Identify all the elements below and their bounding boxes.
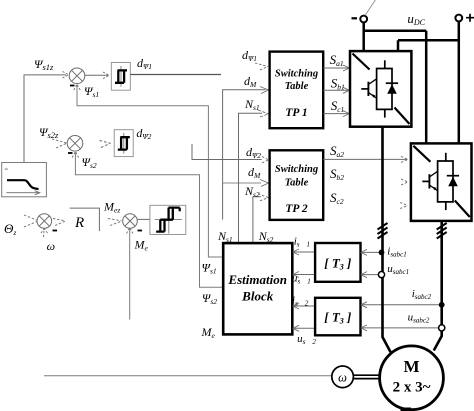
svg-text:Block: Block (241, 289, 274, 304)
wire speed feedback bottom (44, 375, 332, 377)
node u_sabc2 tap (open circle) (439, 325, 445, 331)
wire S_c1 (323, 113, 349, 115)
arrow S_b2 into inverter 2 (401, 179, 408, 185)
wire u_s1 into estimation block (293, 274, 315, 276)
wire torque feedback (129, 228, 131, 320)
svg-text:Switching: Switching (275, 69, 318, 80)
three-phase marks line 1 (378, 223, 388, 239)
svg-text:Switching: Switching (275, 164, 318, 175)
svg-text:R: R (74, 215, 84, 231)
wire flux reference riser (24, 75, 66, 163)
wire torque error to hysteresis (137, 218, 150, 220)
wire i_s2 into estimation block (293, 305, 315, 307)
wire d_M branch to table 2 (223, 182, 261, 184)
wire i_s1 into estimation block (293, 251, 315, 253)
node i_sabc2 tap (439, 302, 445, 308)
svg-text:[ T3 ]: [ T3 ] (324, 256, 351, 272)
wire motor phase line 2 (434, 221, 442, 351)
wire summing junction 1 to flux hysteresis 1 (85, 74, 109, 76)
wire DC bus minus (363, 22, 427, 143)
flux reference block (ramp) (2, 163, 47, 197)
torque hysteresis comparator (3-level) (150, 205, 186, 234)
wire DC bus plus (398, 21, 460, 143)
node i_sabc1 tap (379, 250, 385, 256)
arrow N_s2 into table 2 (258, 194, 269, 201)
arrow d_M into table 1 (260, 87, 269, 94)
wire d_psi2 to switching table 2 (192, 144, 262, 160)
wire N_s1 riser (239, 113, 263, 243)
speed controller R (70, 208, 100, 231)
shaft (354, 374, 380, 376)
arrow summing junction 2 to flux hysteresis 2 (100, 141, 111, 148)
switching table 2 (270, 150, 324, 220)
wire S_a1 (323, 67, 349, 69)
transformation block T3 no.1 (315, 243, 360, 282)
wire d_M riser (223, 90, 266, 220)
motor (380, 346, 444, 411)
svg-text:Table: Table (285, 178, 309, 189)
arrow S_c2 into inverter 2 (400, 203, 408, 209)
wire flux feedback 1 (77, 85, 223, 257)
summing junction 3 (speed) (37, 214, 57, 231)
wire N_s2 riser (253, 197, 261, 243)
three-phase marks line 2 (437, 223, 447, 239)
speed sensor (332, 366, 354, 388)
arrow N_s1 into table 1 (258, 110, 269, 117)
DC terminal plus (455, 15, 462, 22)
svg-text:Table: Table (285, 81, 309, 92)
wire u_sabc1 tap to T3 no.1 (361, 274, 382, 276)
arrow d_psi1 into table 1 (255, 63, 268, 70)
node u_sabc1 tap (open circle) (378, 272, 384, 278)
svg-text:2 x 3~: 2 x 3~ (393, 380, 431, 396)
summing junction 1 (69, 68, 85, 86)
wire d_psi1 to switching table 1 (130, 74, 221, 76)
arrow omega feedback into summing junction 3 (41, 229, 48, 237)
summing junction 4 (torque) (123, 214, 142, 231)
node arrow into summing junction 1 (63, 72, 69, 79)
wire i_sabc2 tap to T3 no.2 (361, 304, 442, 306)
svg-text:TP 1: TP 1 (285, 107, 307, 119)
svg-text:TP 2: TP 2 (285, 203, 307, 215)
transformation block T3 no.2 (315, 298, 360, 336)
wire motor phase line 1 (383, 127, 391, 352)
svg-text:Estimation: Estimation (227, 272, 287, 287)
svg-text:ω: ω (47, 239, 55, 253)
wire flux feedback 2 (75, 152, 223, 287)
wire S_a2 (323, 158, 407, 160)
arrow d_psi2 into table 2 (262, 157, 269, 164)
inverter 2 (411, 143, 472, 221)
wire S_b1 (323, 89, 349, 91)
arrow d_M into table 2 (260, 180, 269, 187)
wire u_s2 into estimation block (293, 327, 315, 329)
DC terminal minus (352, 17, 358, 19)
stray lead line (365, 0, 375, 16)
flux hysteresis comparator 1 (111, 63, 130, 91)
svg-text:M: M (403, 357, 419, 376)
summing junction 2 (67, 136, 83, 154)
arrow speed ref into summing junction 3 (24, 215, 37, 227)
switching table 1 (270, 52, 324, 129)
svg-text:ω: ω (338, 371, 347, 385)
estimation block (223, 243, 292, 334)
svg-text:[ T3 ]: [ T3 ] (324, 310, 351, 326)
flux hysteresis comparator 2 (114, 130, 133, 157)
arrow flux ref 2 into summing junction 2 (52, 139, 67, 148)
arrow R to summing junction 4 (108, 219, 122, 226)
wire i_sabc1 tap to T3 no.1 (361, 251, 382, 253)
arrow summing junction 3 to speed controller R (53, 219, 65, 226)
inverter 1 (350, 51, 411, 127)
wire u_sabc2 tap to T3 no.2 (361, 327, 442, 329)
